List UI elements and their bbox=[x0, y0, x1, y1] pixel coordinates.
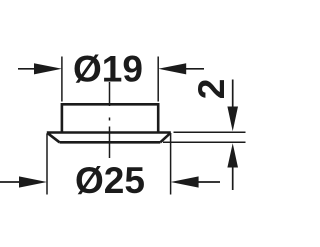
dimension Ø25 left arrow bbox=[0, 181, 20, 183]
extension line Ø19 left bbox=[61, 57, 63, 102]
dimension Ø19 right arrow bbox=[185, 68, 205, 70]
extension line thickness-2 top bbox=[174, 131, 246, 133]
dimension 2 lower arrow (pointing up) bbox=[232, 166, 234, 190]
centerline (vertical dash-dot) bbox=[109, 82, 111, 158]
extension line Ø25 right bbox=[170, 134, 172, 195]
svg-text:Ø19: Ø19 bbox=[73, 49, 143, 90]
svg-text:Ø25: Ø25 bbox=[75, 160, 145, 201]
dimension Ø25 right arrow bbox=[198, 181, 221, 183]
extension line Ø25 left bbox=[46, 134, 48, 195]
svg-text:2: 2 bbox=[191, 79, 232, 100]
flange outline (Ø25 trim ring, chamfered) bbox=[47, 133, 171, 143]
extension line thickness-2 bottom bbox=[163, 141, 246, 143]
dimension 2 upper arrow (pointing down) bbox=[232, 80, 234, 109]
body outline (sleeve, Ø19 section) bbox=[62, 103, 158, 133]
dimension Ø19 left arrow bbox=[18, 68, 36, 70]
extension line Ø19 right bbox=[157, 57, 159, 102]
